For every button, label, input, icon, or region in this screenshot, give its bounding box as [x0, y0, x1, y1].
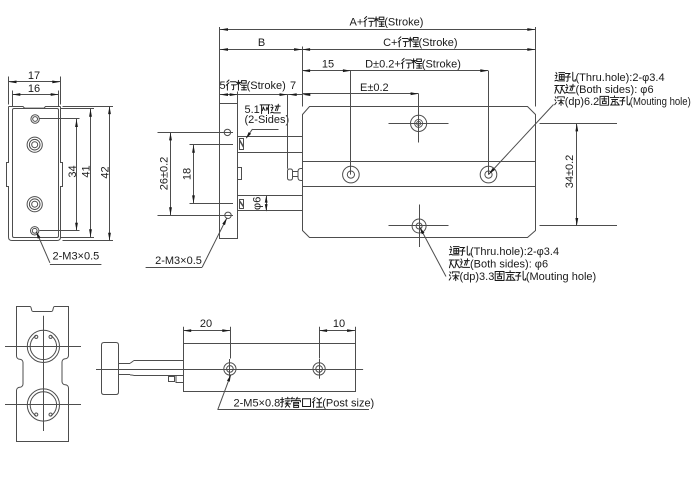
feature: 5.1 slot on upper rod: [240, 139, 244, 150]
svg-text:2-M5×0.8: 2-M5×0.8: [234, 398, 281, 410]
svg-text:5: 5: [220, 80, 226, 92]
dim row: E±0.2: [302, 82, 419, 96]
svg-text:φ: φ: [642, 72, 649, 84]
ring: snap ring upper bore: [30, 335, 56, 359]
svg-text:B: B: [258, 37, 265, 49]
svg-text:15: 15: [322, 59, 334, 71]
centerline: side view axis: [96, 369, 363, 371]
body internal line lower: [302, 186, 535, 188]
svg-text:φ6: φ6: [252, 197, 264, 210]
hole: plate bottom hole: [225, 212, 231, 218]
dim: 16 width: [12, 83, 58, 107]
dim: 18 rod spacing: [182, 145, 234, 204]
centerline: upper bore horizontal: [5, 346, 81, 348]
svg-text:(Stroke): (Stroke): [422, 59, 461, 71]
note: bottom hole specification text: [449, 246, 596, 283]
view: body cross-section (bottom-left): [17, 307, 69, 442]
svg-text:41: 41: [81, 165, 93, 177]
dim: φ6 rod diameter: [252, 196, 268, 212]
bore: lower cylinder bore: [27, 389, 59, 421]
svg-text:A+: A+: [350, 17, 364, 29]
outline: end-view top recess: [9, 107, 61, 109]
svg-text:(Both sides):: (Both sides):: [576, 84, 638, 96]
dim: 34±0.2 body holes vertical: [540, 123, 618, 226]
svg-text:(Post size): (Post size): [322, 398, 374, 410]
svg-text:34±0.2: 34±0.2: [564, 155, 576, 189]
hole: body mid-right hole: [480, 166, 497, 183]
dim: 20 port position: [183, 318, 230, 358]
hole: plate top hole: [224, 129, 230, 135]
dim: 41 face height: [61, 109, 95, 238]
feature: port fitting under sleeve: [169, 376, 184, 383]
svg-text:2-M3×0.5: 2-M3×0.5: [155, 255, 202, 267]
svg-text:(Thru.hole):2-: (Thru.hole):2-: [576, 72, 643, 84]
extension line: body left edge up: [302, 47, 304, 107]
hole: M3 thread bottom (view1): [31, 227, 39, 235]
dim: 10 port position: [319, 318, 355, 358]
part: end plate (side view): [102, 343, 119, 395]
dim: 17 width: [9, 70, 61, 104]
centerline: lower bore horizontal: [5, 404, 81, 406]
extension line: mid-left hole up: [350, 71, 352, 175]
svg-text:(Stroke): (Stroke): [384, 17, 423, 29]
leader: mid-right hole to top-right note: [489, 105, 554, 175]
svg-text:φ: φ: [640, 84, 647, 96]
svg-text:20: 20: [200, 318, 212, 330]
hole: body top mounting hole with crosshair: [389, 115, 449, 131]
svg-text:D±0.2+: D±0.2+: [365, 59, 401, 71]
svg-text:6: 6: [542, 259, 548, 271]
dim: 26±0.2 plate holes: [158, 132, 234, 215]
note: top-right hole specification text: [555, 72, 691, 108]
svg-text:(Both sides):: (Both sides):: [470, 259, 532, 271]
svg-text:(Thru.hole):2-: (Thru.hole):2-: [470, 246, 537, 258]
centerline: bores vertical: [43, 316, 45, 431]
dim row: A+stroke: [220, 17, 535, 31]
svg-text:(dp)3.3: (dp)3.3: [460, 271, 495, 283]
rod: lower piston rod (top view): [238, 196, 302, 211]
svg-text:18: 18: [182, 168, 194, 180]
ring: snap ring lower bore: [30, 392, 56, 416]
svg-text:17: 17: [28, 70, 40, 82]
svg-text:2-M3×0.5: 2-M3×0.5: [53, 250, 100, 262]
dim row: B and C+stroke: [220, 37, 535, 51]
part: cylinder body (side view): [184, 344, 356, 392]
extension line: x287 (7 dim): [287, 95, 289, 169]
svg-text:3.4: 3.4: [544, 246, 559, 258]
svg-text:C+: C+: [383, 37, 397, 49]
outline: cross-section profile: [17, 307, 69, 442]
svg-text:(2-Sides): (2-Sides): [245, 114, 290, 126]
dim: 34 hole spacing (view1): [40, 119, 80, 231]
label: 2-M3x0.5 (view1) with leader: [36, 231, 101, 264]
svg-text:7: 7: [290, 80, 296, 92]
svg-text:16: 16: [28, 83, 40, 95]
label: 2-M3x0.5 (plate) with leader: [146, 218, 227, 268]
hole: left port hole (side view): [224, 359, 236, 379]
feature: 5.1 slot on lower rod: [240, 200, 244, 209]
feature: slot block on plate right edge mid-height: [238, 168, 242, 180]
dim row: 5 stroke 7: [220, 80, 303, 96]
svg-text:6: 6: [647, 84, 653, 96]
feature: air port boss on body left edge: [288, 169, 303, 181]
hole: body mid-left hole: [343, 166, 360, 183]
rod: upper piston rod (top view): [238, 137, 302, 153]
svg-text:φ: φ: [535, 259, 542, 271]
view: cylinder end view (top-left): [7, 107, 63, 241]
leader: bottom hole to bottom note: [420, 227, 446, 277]
bore: upper cylinder bore: [27, 330, 59, 362]
dim row: 15 and D±0.2+stroke: [302, 58, 488, 72]
svg-text:42: 42: [100, 166, 112, 178]
hole: right port hole (side view): [313, 359, 325, 379]
svg-text:φ: φ: [537, 246, 544, 258]
hole: rod bushing upper (view1): [27, 137, 42, 152]
label: 2-M5x0.8 port size with leader: [218, 375, 375, 410]
svg-text:(Mouting hole): (Mouting hole): [526, 271, 596, 283]
extension line: top hole vertical: [418, 94, 420, 143]
svg-text:10: 10: [333, 318, 345, 330]
outline: end-view outer profile: [7, 107, 63, 241]
outline: end-view face (16-wide rounded rect): [13, 109, 59, 238]
svg-text:26±0.2: 26±0.2: [159, 157, 171, 191]
extension line: mid-right hole up: [488, 71, 490, 175]
dim: 42 overall height: [63, 106, 114, 241]
part: moving end plate (top view): [220, 104, 238, 239]
extension line: plate right edge up: [237, 92, 239, 104]
hole: rod bushing lower (view1): [27, 197, 42, 212]
extension line: body right edge up: [535, 27, 537, 107]
svg-text:3.4: 3.4: [649, 72, 664, 84]
hole: body bottom mounting hole with crosshair: [389, 205, 449, 248]
svg-text:E±0.2: E±0.2: [360, 82, 389, 94]
part: cylinder body (top view) outline with chamfered corners: [303, 107, 536, 238]
rod: side view rod and sleeve: [119, 361, 184, 376]
svg-text:(Stroke): (Stroke): [418, 37, 457, 49]
svg-text:34: 34: [67, 165, 79, 177]
svg-text:(Mouting hole): (Mouting hole): [630, 96, 691, 108]
svg-text:(Stroke): (Stroke): [247, 80, 286, 92]
body internal line upper: [302, 161, 535, 163]
extension line: plate left edge up: [219, 27, 221, 103]
svg-text:(dp)6.2: (dp)6.2: [565, 96, 600, 108]
hole: M3 thread top (view1): [31, 115, 39, 123]
label: 5.1 two sides (2-Sides) with leader: [245, 104, 290, 139]
